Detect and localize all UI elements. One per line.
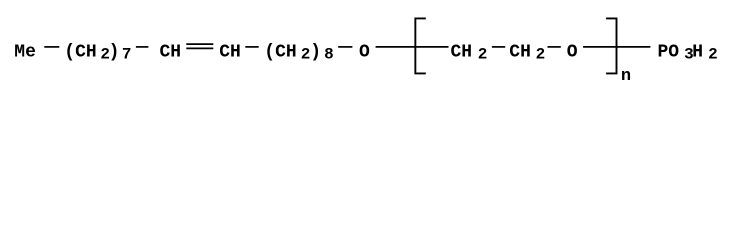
svg-text:PO: PO	[658, 43, 680, 63]
svg-text:2: 2	[478, 46, 488, 64]
svg-text:n: n	[621, 67, 631, 86]
svg-text:O: O	[359, 43, 370, 63]
svg-text:Me: Me	[14, 43, 36, 63]
svg-text:): )	[310, 43, 321, 63]
double bond C=C upper line	[186, 43, 213, 45]
svg-text:7: 7	[122, 46, 132, 64]
svg-text:(CH: (CH	[64, 43, 96, 63]
svg-text:H: H	[692, 43, 703, 63]
svg-text:8: 8	[324, 46, 334, 64]
double bond C=C lower line	[186, 47, 213, 49]
bond CH2 to O	[548, 46, 561, 48]
svg-text:): )	[109, 43, 120, 63]
svg-text:CH: CH	[219, 43, 241, 63]
svg-text:2: 2	[301, 46, 311, 64]
svg-text:(CH: (CH	[264, 43, 296, 63]
left polymer bracket	[415, 18, 425, 73]
bond O to PO3H2 crossing right bracket	[583, 46, 650, 48]
bond CH2 to CH2	[492, 46, 505, 48]
svg-text:CH: CH	[509, 43, 531, 63]
svg-text:CH: CH	[160, 43, 182, 63]
svg-text:O: O	[567, 43, 578, 63]
bond CH to (CH2)8	[245, 46, 258, 48]
bond O to CH2 crossing left bracket	[376, 46, 449, 48]
right polymer bracket	[606, 18, 616, 73]
bond (CH2)8 to O	[338, 46, 352, 48]
svg-text:CH: CH	[451, 43, 473, 63]
bond (CH2)7 to CH	[136, 46, 149, 48]
svg-text:2: 2	[708, 46, 718, 64]
bond Me to (CH2)7	[44, 46, 59, 48]
svg-text:2: 2	[536, 46, 546, 64]
